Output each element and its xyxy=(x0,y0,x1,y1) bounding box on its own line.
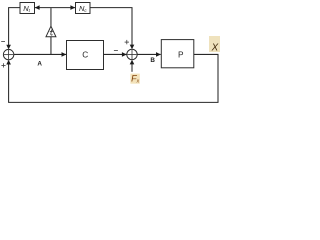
wire: top wire down to triangle apex xyxy=(50,8,52,27)
arrowhead down into junction 2 top xyxy=(130,45,135,50)
wire: P output right, down, along bottom, and up into junction 1 (feedback) xyxy=(9,54,218,102)
wire: Nt output left then down to summing junction 1 xyxy=(9,8,20,46)
arrowhead up into junction 2 bottom xyxy=(130,60,135,65)
summing junction 1 xyxy=(3,49,13,59)
svg-text:C: C xyxy=(82,50,88,60)
minus sign at junction 2 left input xyxy=(114,49,118,51)
arrowhead into junction 2 left xyxy=(122,52,127,57)
svg-text:B: B xyxy=(150,57,155,64)
wire: triangle base down to node A xyxy=(50,37,52,55)
wire: Nc output right then down to junction 2 xyxy=(90,8,132,46)
box Nc xyxy=(76,3,91,14)
arrowhead into P xyxy=(156,52,161,57)
wire: junction 2 to P (node B) xyxy=(137,53,160,55)
arrowhead down into junction 1 top xyxy=(6,45,11,50)
amplifier triangle (gain) xyxy=(46,26,56,37)
arrowhead into Nc (pointing right) xyxy=(70,5,75,10)
label X (output) xyxy=(209,36,220,52)
wire top: amplifier output splitting to Nt and Nc xyxy=(35,7,76,9)
wire: external force input Fx up into junction 2 xyxy=(131,64,133,72)
minus sign at junction 1 top input xyxy=(1,40,5,42)
plus sign at junction 1 bottom input xyxy=(1,64,5,66)
gain label inside triangle xyxy=(50,29,53,35)
arrowhead into Nt (pointing left) xyxy=(35,5,40,10)
wire: junction1 to C (node A) xyxy=(14,53,66,55)
box P (plant) xyxy=(161,40,194,68)
svg-text:X: X xyxy=(211,42,219,53)
plus sign at junction 2 top input xyxy=(125,41,129,43)
svg-text:P: P xyxy=(178,49,184,59)
summing junction 2 xyxy=(127,49,137,59)
label Fx (external force input) xyxy=(130,74,139,84)
box Nt xyxy=(20,3,35,14)
arrowhead into C xyxy=(62,52,67,57)
wire: C to summing junction 2 xyxy=(104,53,127,55)
svg-text:A: A xyxy=(37,61,42,68)
box C (controller) xyxy=(67,41,104,70)
arrowhead up into junction 1 bottom xyxy=(6,60,11,65)
